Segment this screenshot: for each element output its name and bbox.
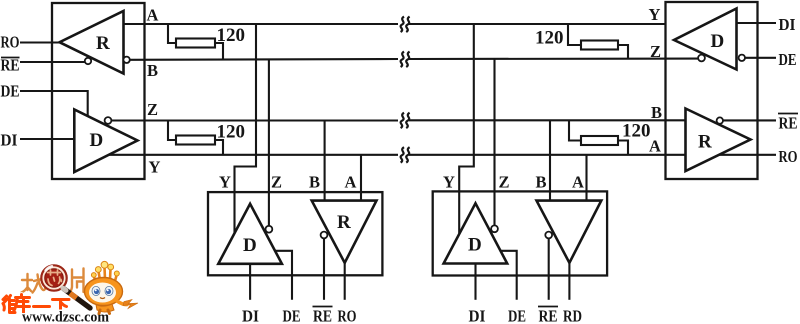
wire RO (U2): [344, 263, 346, 300]
driver D (U4): [674, 9, 737, 70]
watermark char pian: [69, 269, 84, 294]
svg-text:RE: RE: [779, 114, 798, 133]
mascot mouth: [100, 298, 105, 299]
wire DE (U4): [745, 57, 776, 59]
svg-text:D: D: [243, 235, 257, 256]
watermark text weiku yixia: [3, 295, 69, 314]
label /RE (U3): [539, 307, 558, 324]
resistor R1 120 ohm (left, A-B): [168, 24, 176, 43]
svg-text:R: R: [337, 212, 351, 233]
wire DI (U2): [249, 264, 251, 300]
driver D (U1): [74, 110, 137, 173]
transceiver U2 box (middle-left): [208, 192, 382, 275]
svg-text:Y: Y: [443, 173, 455, 192]
svg-text:B: B: [651, 103, 662, 122]
wire DI (U3): [474, 264, 476, 300]
mascot eyes: [92, 286, 100, 295]
resistor R2 120 ohm (left, Z-Y): [168, 121, 176, 141]
wire RE (U4): [723, 119, 776, 121]
bus line A (top pair wire): [124, 23, 666, 25]
mascot head: [85, 278, 123, 306]
wire DI (U4): [737, 22, 777, 24]
svg-text:R: R: [698, 132, 712, 153]
bus line Y (bottom pair wire): [109, 154, 685, 156]
bubble RE enable (U2): [321, 232, 328, 239]
svg-text:D: D: [90, 130, 104, 151]
wire bus B to U2 pin Z: [268, 59, 270, 226]
break marks bus Y: [401, 147, 410, 162]
bubble RE enable (U4): [717, 117, 723, 123]
wire bus A to U2 pin Y: [235, 24, 257, 233]
svg-text:B: B: [309, 173, 320, 192]
watermark char xin inside circle: [48, 270, 62, 286]
svg-text:120: 120: [217, 25, 246, 46]
svg-text:DE: DE: [283, 307, 301, 324]
svg-text:DE: DE: [779, 50, 797, 69]
svg-text:B: B: [147, 61, 158, 80]
watermark logo group: [3, 261, 138, 324]
wire DE (U3): [500, 251, 517, 300]
wire bus Y to U2 pin A: [360, 155, 362, 201]
watermark magnifier handle pen: [64, 289, 91, 309]
wire DI (U1): [20, 138, 74, 140]
wire bus B to U3 pin Z: [493, 59, 495, 226]
bubble RE enable (U3): [545, 232, 552, 239]
resistor R3 120 ohm (right, A-B): [568, 24, 581, 45]
wire bus Y to U3 pin A: [585, 155, 587, 201]
svg-text:RE: RE: [539, 307, 558, 324]
svg-text:DE: DE: [1, 82, 20, 101]
svg-text:B: B: [536, 173, 547, 192]
resistor R4 120 ohm (right, Z-Y): [569, 120, 581, 140]
svg-text:Z: Z: [271, 173, 282, 192]
svg-text:120: 120: [217, 122, 246, 143]
bus line Z (bottom pair wire): [111, 119, 685, 121]
svg-text:A: A: [345, 173, 357, 192]
wire RE (U1): [20, 61, 85, 63]
svg-text:Y: Y: [649, 5, 661, 24]
watermark magnifier circle: [41, 265, 66, 290]
svg-text:A: A: [649, 137, 661, 156]
wire RE (U2): [323, 239, 325, 300]
wire RO (U4): [720, 154, 777, 156]
label /RE (U2): [313, 307, 332, 324]
wire DE (U1): [20, 91, 88, 116]
wire RE (U3): [548, 239, 550, 300]
transceiver U4 box (right): [666, 2, 758, 179]
label /RE (U4): [779, 114, 798, 133]
svg-text:www.dzsc.com: www.dzsc.com: [22, 310, 109, 324]
svg-text:120: 120: [535, 28, 564, 49]
break marks bus B: [401, 52, 410, 67]
bubble Z output (U4): [698, 55, 705, 62]
svg-text:RO: RO: [779, 147, 798, 166]
receiver R (U2): [312, 201, 377, 263]
driver D (U2): [218, 204, 282, 264]
receiver R (U4): [686, 109, 751, 172]
bubble Z output (U1): [105, 117, 112, 124]
bubble RE enable (U1): [85, 58, 91, 64]
wire bus A to U3 pin Y: [459, 24, 474, 233]
label /RE (U1): [1, 56, 20, 75]
svg-text:RO: RO: [1, 33, 20, 52]
transceiver U1 box (left): [52, 3, 145, 179]
svg-text:DI: DI: [469, 307, 486, 324]
svg-text:RE: RE: [313, 307, 332, 324]
wire bus Z to U3 pin B: [549, 120, 551, 200]
wire bus Z to U2 pin B: [324, 120, 326, 200]
svg-text:Y: Y: [219, 173, 231, 192]
svg-text:DI: DI: [779, 15, 796, 34]
bubble DE enable (U4): [739, 55, 745, 61]
svg-text:A: A: [147, 6, 159, 25]
svg-text:A: A: [572, 173, 584, 192]
receiver triangle (U3): [537, 201, 602, 263]
bubble Z output (U3): [491, 225, 498, 232]
driver D (U3): [444, 203, 508, 263]
svg-text:D: D: [468, 235, 482, 256]
svg-text:RO: RO: [338, 307, 357, 324]
mascot body and legs: [96, 304, 114, 312]
wire RO (U1): [20, 41, 60, 43]
svg-text:Z: Z: [650, 42, 661, 61]
svg-text:120: 120: [622, 121, 651, 142]
break marks bus A: [401, 17, 410, 32]
svg-text:DI: DI: [1, 131, 18, 150]
bus line B (top pair wire): [130, 59, 698, 60]
svg-text:Z: Z: [147, 100, 158, 119]
transceiver U3 box (middle-right): [433, 191, 607, 275]
watermark magnifier glare: [46, 266, 53, 270]
receiver R (U1): [60, 11, 124, 74]
mascot right arm with bolt: [117, 301, 127, 305]
bubble B input (U1): [123, 57, 129, 63]
svg-text:RD: RD: [563, 307, 582, 324]
svg-text:R: R: [96, 33, 110, 54]
break marks bus Z: [401, 113, 410, 128]
svg-text:DI: DI: [242, 307, 259, 324]
svg-text:Z: Z: [499, 173, 510, 192]
wire RD (U3): [568, 263, 570, 300]
svg-text:Y: Y: [149, 158, 161, 177]
svg-text:D: D: [711, 31, 725, 52]
wire DE (U2): [275, 251, 292, 300]
watermark char zhao: [22, 274, 46, 293]
watermark mascot: [85, 261, 139, 313]
bubble Z output (U2): [266, 226, 273, 233]
svg-text:DE: DE: [508, 307, 526, 324]
mascot antennae: [94, 268, 117, 282]
